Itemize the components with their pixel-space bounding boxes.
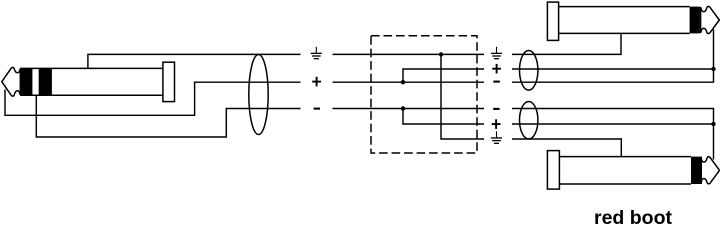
insulator band of J3 — [691, 157, 702, 184]
junction dot at bottom plug tip vertical — [711, 122, 715, 126]
connector J1 stereo TRS plug (left) — [2, 62, 175, 101]
wire plus row into dashed box — [333, 81, 485, 83]
wire minus row into dashed box — [333, 108, 485, 110]
wire stub plus to top-plus row — [403, 69, 484, 82]
tip of J2 — [701, 6, 720, 33]
wire bottom minus row to bottom plug tip — [512, 109, 714, 160]
junction dot on minus row — [401, 106, 405, 110]
ground symbol left column — [311, 47, 322, 60]
insulator band of J2 — [690, 7, 700, 34]
plus symbol bottom-right column — [492, 119, 501, 129]
minus symbol left column — [314, 108, 320, 110]
wire tip of J1 down and right to plus row — [5, 82, 301, 115]
minus symbol bottom-right column — [493, 108, 499, 110]
cable ellipse top-right — [520, 51, 538, 91]
wire sleeve of J1 up to ground row — [88, 54, 301, 68]
plus symbol left column — [312, 77, 321, 87]
minus symbol top-right column — [493, 81, 499, 83]
junction dot at top plug tip vertical — [711, 67, 715, 71]
junction dot on plus row — [401, 80, 405, 84]
boot cap of J3 — [547, 151, 559, 190]
plus symbol top-right column — [492, 64, 501, 74]
wire ground row into dashed box — [333, 53, 485, 55]
boot cap of J2 — [547, 2, 558, 40]
tip of TRS plug J1 — [2, 67, 21, 96]
wire bottom ground row to bottom plug sleeve — [512, 139, 621, 157]
wire bottom plus row joining tip vertical — [512, 123, 714, 125]
junction dot on ground row — [439, 52, 443, 56]
wire top ground row to top plug sleeve — [512, 33, 621, 54]
wire ground split vertical — [441, 54, 484, 139]
wire stub minus to bottom-plus row — [403, 109, 484, 125]
ground symbol top-right column — [491, 47, 502, 60]
insulator ring band 2 of J1 — [39, 68, 52, 95]
barrel outline of J3 — [559, 157, 691, 184]
wire top minus row joining tip vertical — [512, 30, 714, 83]
collar rectangle at J1 cable end — [163, 62, 175, 101]
connector J3 mono TS plug (bottom right) — [547, 151, 719, 190]
cable ellipse bottom-right — [520, 102, 538, 139]
label red boot — [594, 207, 672, 230]
tip of J3 — [701, 157, 720, 184]
wire top plus row to top plug tip — [512, 68, 714, 70]
dashed junction box — [371, 36, 477, 153]
insulator ring band 1 of J1 — [20, 68, 32, 95]
connector J2 mono TS plug (top right) — [547, 2, 719, 40]
cable ellipse left — [249, 55, 268, 135]
ground symbol bottom-right column — [491, 131, 502, 144]
wire ring of J1 down and right to minus row — [36, 95, 300, 137]
barrel outline of J1 — [20, 68, 163, 95]
barrel outline of J2 — [559, 7, 690, 34]
